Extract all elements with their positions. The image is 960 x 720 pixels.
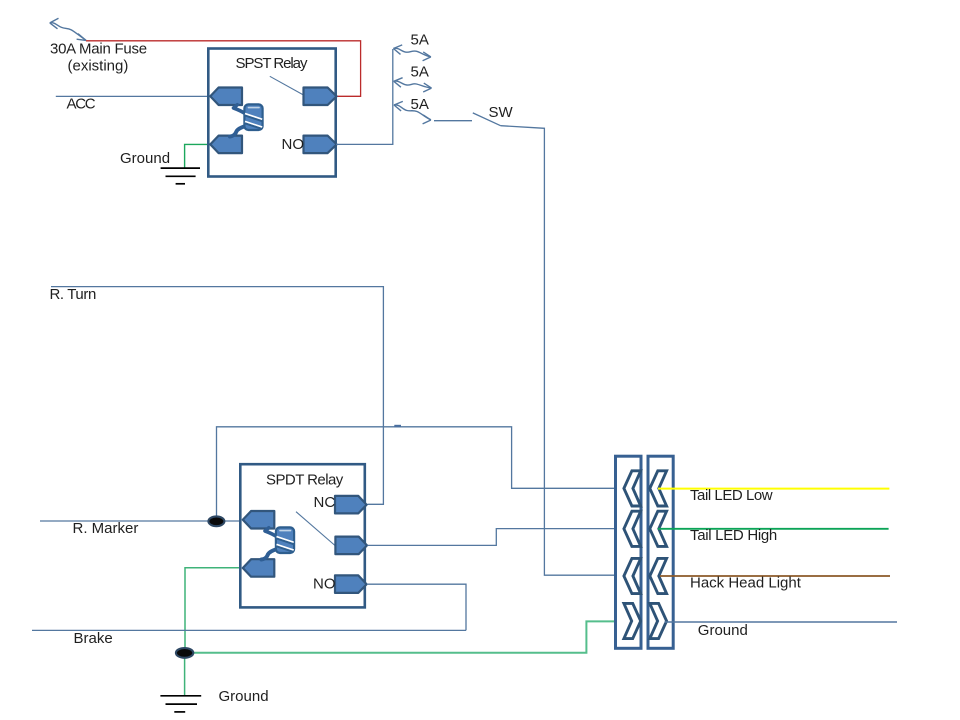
svg-text:Hack Head Light: Hack Head Light	[690, 575, 802, 592]
relay U1 SPST box	[208, 49, 335, 177]
ground symbol G2	[160, 696, 201, 712]
svg-text:Brake: Brake	[74, 630, 113, 647]
wire SPDT common to tail led high	[368, 529, 624, 546]
coil K2 lead lower	[261, 549, 278, 560]
wire fuse3 to switch	[434, 120, 472, 122]
svg-text:Ground: Ground	[120, 150, 170, 167]
coil K1 lead upper	[234, 105, 246, 114]
wire hop dash	[394, 425, 401, 427]
pin SPDT common middle	[335, 537, 367, 555]
svg-text:30A Main Fuse: 30A Main Fuse	[50, 40, 147, 57]
fuse F2 5A	[394, 78, 432, 92]
switch lever inside SPST relay	[270, 76, 304, 95]
pin SPST top-right	[304, 88, 337, 106]
coil K1 lead lower	[230, 126, 247, 137]
wire green junction to ground symbol	[184, 653, 186, 696]
wire green ground bus to connector	[193, 621, 624, 652]
wire green tail led high	[658, 528, 889, 530]
wire ACC	[56, 95, 209, 97]
fuse F1 5A	[393, 45, 431, 61]
pin SPDT left upper	[243, 511, 274, 529]
pin SPST bottom-left	[210, 136, 242, 154]
switch SW blade	[473, 113, 501, 126]
svg-text:NO: NO	[313, 576, 336, 593]
pin SPDT left lower	[243, 559, 274, 577]
wire Brake	[32, 629, 466, 631]
svg-text:Ground: Ground	[219, 688, 269, 705]
svg-text:SPST Relay: SPST Relay	[236, 55, 308, 72]
connector J1 left block	[616, 456, 642, 648]
chevron J2 row2	[650, 511, 667, 546]
switch lever inside SPDT relay	[296, 512, 335, 546]
wire brown hack head light	[660, 575, 890, 577]
svg-text:R. Marker: R. Marker	[73, 520, 139, 537]
wire green relay coil to ground	[185, 144, 211, 168]
svg-text:5A: 5A	[411, 64, 429, 81]
wire blue ground right	[665, 621, 898, 623]
wire R. Turn to NC pin	[51, 287, 383, 505]
pin SPDT NC	[335, 496, 367, 514]
connector J2 right block	[648, 456, 673, 648]
chevron J2 row4	[650, 603, 667, 638]
coil K2 lead upper	[265, 528, 277, 537]
junction node brake ground dot	[176, 648, 193, 658]
svg-text:Tail LED High: Tail LED High	[690, 527, 777, 544]
wire switch to headlight block	[501, 126, 617, 576]
wire NO pin to fuse bus	[336, 49, 393, 144]
fuse F3 5A	[394, 101, 431, 124]
chevron J1 row2	[624, 511, 641, 546]
coil K2 cylinder	[276, 527, 294, 553]
wire SPDT NO to brake	[367, 584, 466, 630]
svg-text:Ground: Ground	[698, 622, 748, 639]
chevron J1 row3	[624, 558, 641, 593]
coil K1 cylinder	[244, 104, 262, 130]
pin SPDT NO	[335, 575, 367, 593]
chevron J2 row3	[650, 558, 667, 593]
svg-text:ACC: ACC	[67, 96, 96, 113]
svg-text:NO: NO	[282, 136, 305, 153]
svg-text:5A: 5A	[411, 96, 429, 113]
junction node marker dot	[208, 516, 224, 526]
pin SPST top-left	[210, 88, 242, 106]
relay U2 SPDT box	[240, 464, 364, 607]
svg-text:R. Turn: R. Turn	[50, 286, 96, 303]
svg-text:Tail LED Low: Tail LED Low	[690, 487, 773, 504]
wire marker junction riser to tail led low	[217, 427, 625, 521]
chevron J2 row1	[650, 471, 667, 506]
wire green SPDT coil to ground bus	[185, 568, 243, 653]
wire red from fuse to SPST relay pin	[86, 41, 361, 97]
svg-text:5A: 5A	[411, 32, 429, 49]
wire yellow tail led low	[658, 488, 889, 490]
pin SPST bottom-right NO	[304, 136, 337, 154]
chevron J1 row4	[624, 603, 641, 638]
wire R. Marker	[40, 520, 243, 522]
ground symbol G1	[161, 168, 200, 184]
svg-text:NC: NC	[314, 494, 336, 511]
svg-text:(existing): (existing)	[68, 57, 129, 74]
chevron J1 row1	[624, 471, 641, 506]
fuse F-main 30A squiggle	[50, 18, 86, 40]
svg-text:SPDT Relay: SPDT Relay	[266, 472, 344, 489]
svg-text:SW: SW	[489, 104, 514, 121]
